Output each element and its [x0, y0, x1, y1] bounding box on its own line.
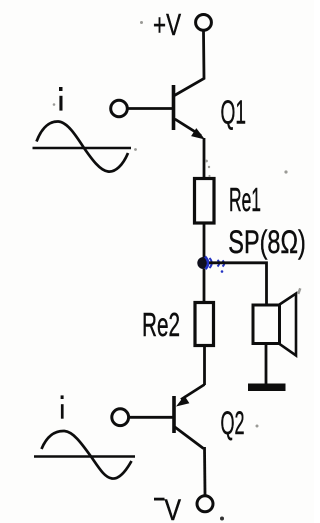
svg-text:SP(8Ω): SP(8Ω) [228, 224, 305, 260]
sine wave upper axis [33, 147, 132, 150]
wire node to speaker [209, 263, 267, 305]
blue speck [221, 270, 224, 273]
terminal base Q2 [112, 409, 129, 426]
transistor Q1 [174, 85, 206, 140]
wire emitter Q1 to Re1 [203, 138, 206, 179]
wire speaker to ground [265, 344, 268, 385]
wire Re2 to emitter Q2 [203, 346, 206, 386]
node junction [197, 257, 209, 269]
resistor Re1 [195, 179, 215, 224]
wire base Q1 [128, 107, 172, 110]
svg-text:+V: +V [153, 7, 181, 42]
label -V [154, 494, 181, 523]
sine wave lower axis [34, 455, 135, 458]
transistor Q2 [174, 385, 205, 449]
svg-text:Re2: Re2 [142, 306, 180, 343]
ground [248, 384, 286, 392]
wire Re1 to node [203, 223, 206, 259]
sine wave upper curve [37, 121, 129, 171]
svg-text:Re1: Re1 [229, 181, 261, 218]
svg-text:Q1: Q1 [221, 94, 247, 131]
label i lower [61, 395, 64, 418]
wire base Q2 [130, 416, 173, 419]
resistor Re2 [195, 303, 214, 346]
terminal +V [196, 15, 212, 31]
blue pen marks [205, 257, 230, 270]
wire collector Q1 to +V [174, 32, 205, 97]
paper specks [53, 21, 302, 521]
wire node to Re2 [203, 269, 206, 303]
sine wave lower curve [42, 431, 132, 479]
terminal base Q1 [111, 100, 128, 117]
terminal -V [197, 496, 213, 512]
svg-text:Q2: Q2 [221, 405, 245, 441]
svg-text:V: V [165, 494, 182, 523]
speaker SP [253, 294, 296, 356]
label i upper [59, 87, 63, 111]
wire collector Q2 to -V [203, 447, 206, 495]
